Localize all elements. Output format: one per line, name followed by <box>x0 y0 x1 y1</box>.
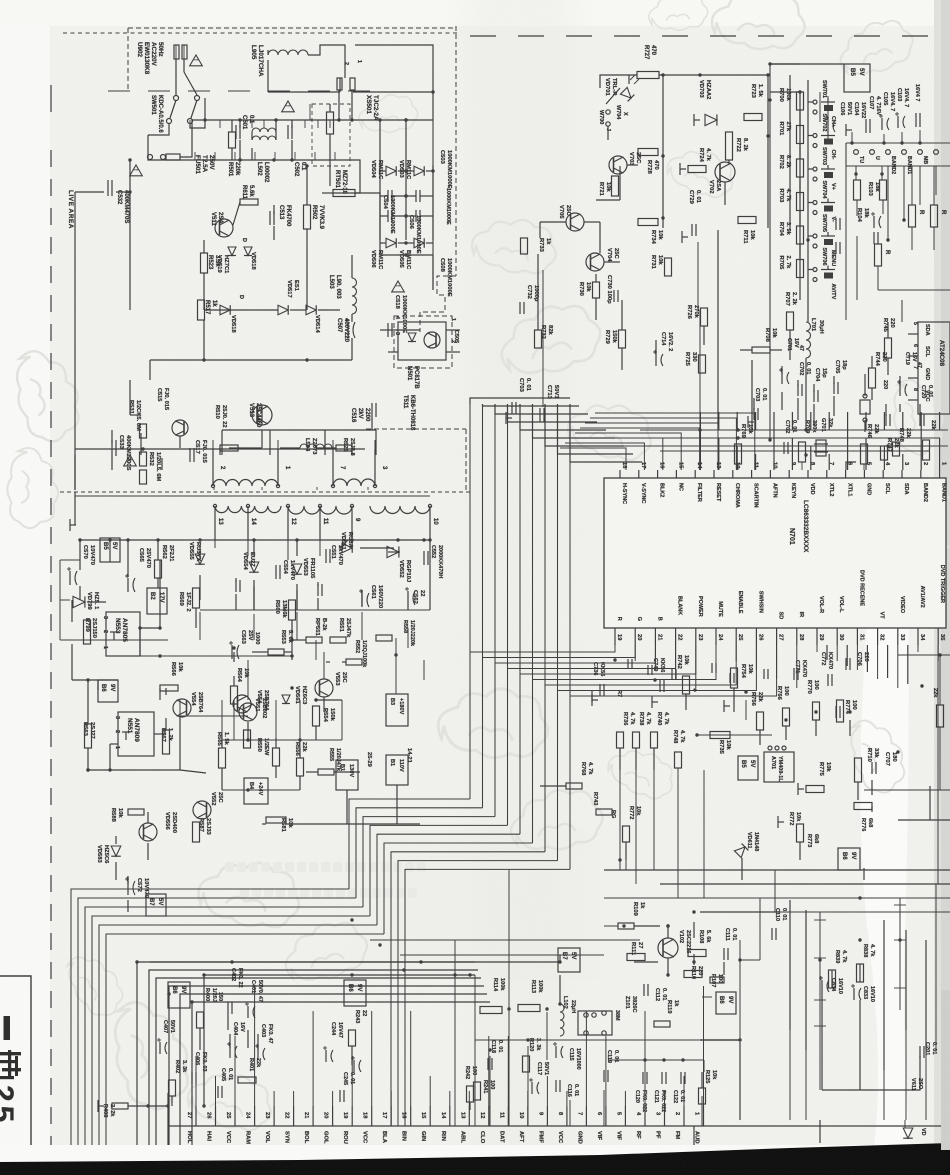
svg-text:V554: V554 <box>256 690 262 704</box>
svg-text:22k: 22k <box>932 688 938 698</box>
svg-text:2SB764: 2SB764 <box>263 690 269 711</box>
